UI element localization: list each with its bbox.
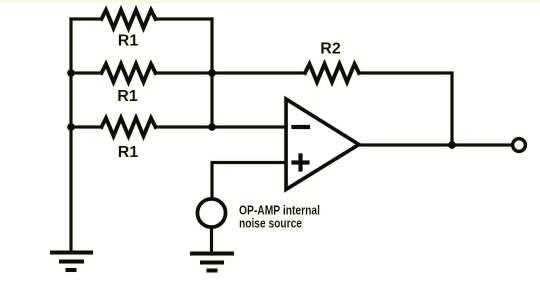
svg-text:OP-AMP internal: OP-AMP internal <box>239 203 320 217</box>
label R2 <box>320 41 341 58</box>
wire middle row left lead <box>71 71 102 74</box>
op-amp non-inverting input plus sign <box>294 156 308 170</box>
label R1 (top) <box>118 32 139 49</box>
wire middle row to R2 <box>156 71 306 74</box>
svg-text:R1: R1 <box>117 88 138 105</box>
junction node left rail / bottom row <box>67 123 75 131</box>
ground (left) <box>52 253 91 271</box>
label R1 (middle) <box>117 88 138 105</box>
wire top row right lead <box>156 17 213 20</box>
junction node right rail / middle row <box>208 69 216 77</box>
wire feedback vertical drop <box>450 73 453 145</box>
wire non-inverting input to noise source <box>212 163 286 199</box>
wire bottom row to op-amp inverting input <box>156 125 287 128</box>
wire bottom row left lead <box>71 125 102 128</box>
output terminal <box>513 139 526 152</box>
svg-text:R2: R2 <box>320 41 341 58</box>
svg-text:R1: R1 <box>118 32 139 49</box>
wire noise source to ground <box>210 229 213 254</box>
ground (noise source) <box>192 254 232 271</box>
resistor R1 (bottom) zigzag <box>102 118 156 136</box>
junction node right rail / bottom row <box>208 123 216 131</box>
resistor R1 (middle) zigzag <box>102 64 156 82</box>
wire op-amp output <box>359 143 511 146</box>
wire left rail <box>69 19 72 252</box>
wire R2 to feedback corner <box>359 71 452 74</box>
svg-text:noise source: noise source <box>239 216 302 230</box>
op-amp inverting input minus sign <box>294 125 309 129</box>
label R1 (bottom) <box>118 144 139 161</box>
svg-text:R1: R1 <box>118 144 139 161</box>
junction node feedback / output <box>448 141 456 149</box>
wire top row left lead <box>71 17 102 20</box>
resistor R1 (top) zigzag <box>102 10 156 28</box>
noise source circle <box>197 199 225 227</box>
junction node left rail / middle row <box>67 69 75 77</box>
label noise source <box>239 203 320 230</box>
wire right rail <box>210 19 213 127</box>
resistor R2 zigzag <box>305 64 359 82</box>
op-amp U1 triangle <box>286 99 359 190</box>
